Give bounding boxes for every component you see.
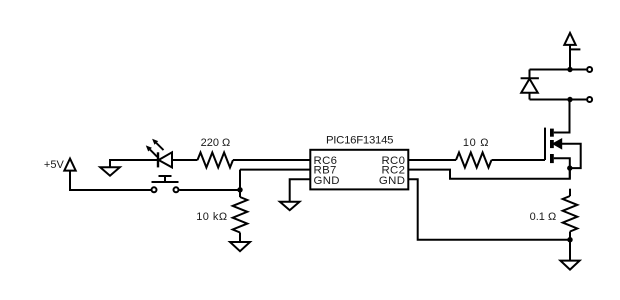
svg-text:+5V: +5V	[44, 159, 65, 171]
svg-text:10 kΩ: 10 kΩ	[196, 211, 227, 223]
svg-text:220 Ω: 220 Ω	[201, 137, 231, 149]
svg-text:GND: GND	[379, 175, 405, 187]
svg-text:GND: GND	[314, 175, 340, 187]
svg-text:0.1 Ω: 0.1 Ω	[530, 211, 557, 223]
svg-text:10 Ω: 10 Ω	[463, 137, 489, 149]
svg-text:PIC16F13145: PIC16F13145	[326, 135, 393, 147]
